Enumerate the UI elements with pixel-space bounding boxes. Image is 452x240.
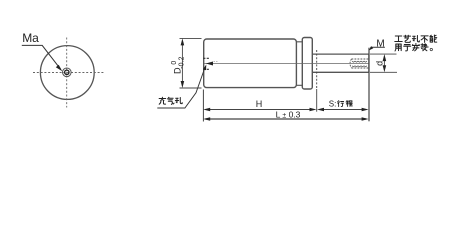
svg-text:Ma: Ma bbox=[22, 31, 39, 45]
svg-text:M: M bbox=[376, 38, 384, 49]
svg-text:L ± 0.3: L ± 0.3 bbox=[276, 110, 301, 120]
svg-text:S:: S: bbox=[329, 100, 337, 109]
svg-text:0: 0 bbox=[171, 61, 178, 65]
svg-text:H: H bbox=[256, 99, 263, 109]
svg-text:d: d bbox=[375, 61, 385, 66]
svg-text:-0.2: -0.2 bbox=[178, 57, 185, 69]
